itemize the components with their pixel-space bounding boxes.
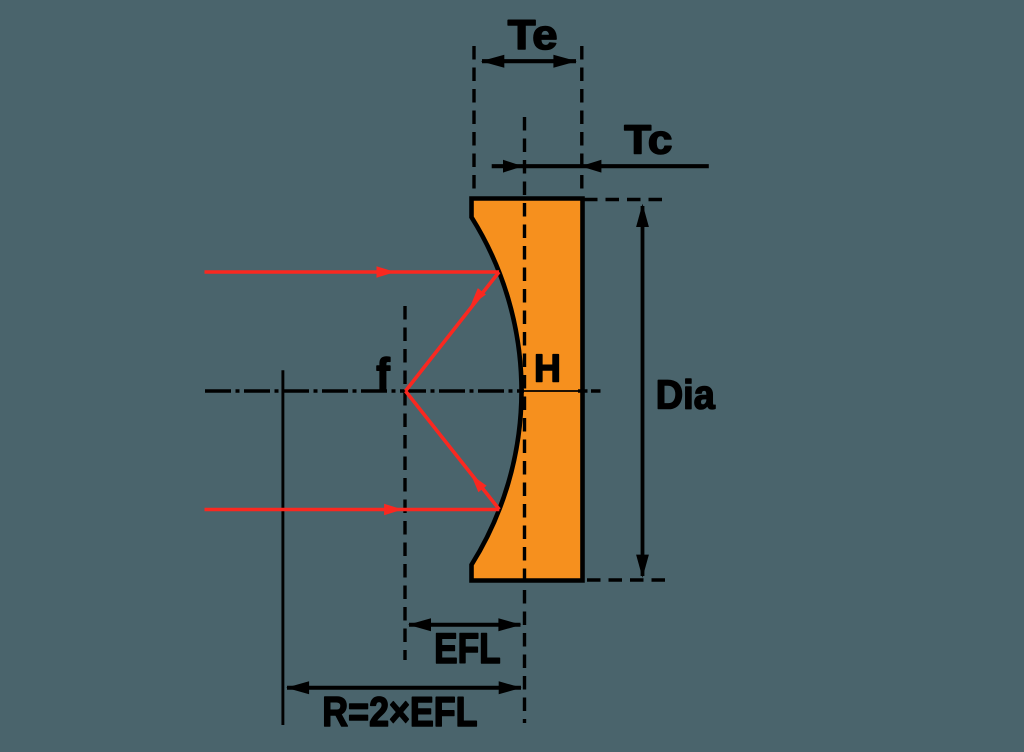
svg-text:R=2×EFL: R=2×EFL [322, 689, 477, 735]
ray 2 incident (bottom, red) [205, 504, 500, 515]
dimension Tc arrows [492, 160, 709, 173]
svg-text:Dia: Dia [656, 372, 716, 418]
svg-text:Tc: Tc [624, 117, 672, 162]
dimension EFL arrow [408, 618, 521, 631]
extension line (dashed) focal plane through f [403, 306, 406, 660]
optical axis dashes right of mirror [578, 389, 601, 393]
svg-text:Te: Te [508, 13, 558, 59]
optical axis thin segment across mirror [524, 390, 578, 392]
ray 1 incident (top, red) [205, 266, 500, 277]
ray 1 reflected to f [406, 272, 500, 391]
dimension Dia arrow [636, 204, 649, 578]
extension line (dashed) right face plane for Te/Tc [580, 46, 583, 197]
optical axis (dash-dot centerline) [205, 389, 524, 393]
dimension R=2xEFL arrow [286, 681, 522, 694]
extension line (dashed) vertex plane H [523, 117, 526, 723]
svg-text:H: H [534, 347, 561, 391]
extension line (dashed) Dia bottom [587, 578, 667, 581]
center-of-curvature vertical line [281, 370, 284, 725]
extension line (dashed) left face plane for Te [472, 46, 475, 197]
mirror M1 (plano-concave, orange body) [472, 199, 583, 581]
dimension Te arrow [481, 55, 577, 68]
svg-text:f: f [376, 350, 390, 400]
svg-text:EFL: EFL [434, 626, 501, 673]
ray 2 reflected to f [406, 391, 500, 510]
extension line (dashed) Dia top [584, 198, 667, 201]
